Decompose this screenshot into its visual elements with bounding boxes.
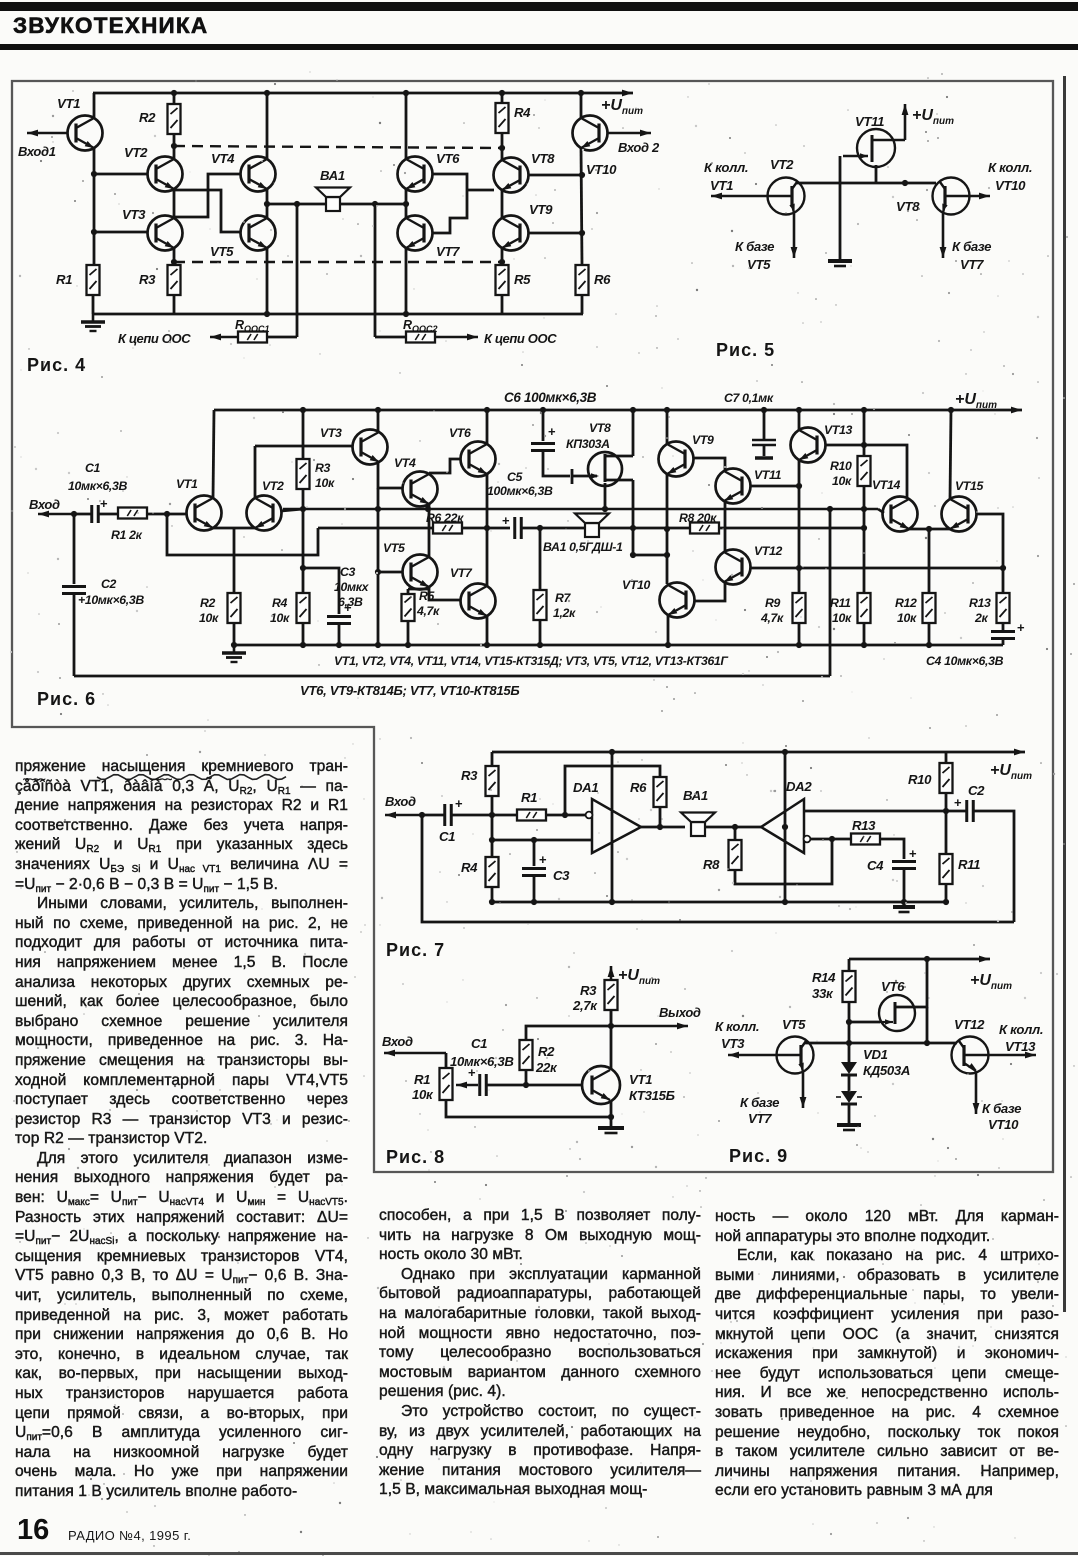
wire R1 to DA1 input bbox=[546, 814, 586, 817]
svg-text:VT6, VT9-КТ814Б; VT7, VT10-К: VT6, VT9-КТ814Б; VT7, VT10-КТ815Б bbox=[300, 683, 519, 698]
node out8 bbox=[608, 1023, 614, 1029]
figure 7: bridge op-amp schematic bbox=[0, 0, 1, 1]
wire R5 to ground rail bbox=[407, 621, 410, 645]
svg-text:+: + bbox=[954, 795, 962, 810]
wire rail to R10 (Fig.7) bbox=[945, 752, 948, 763]
label VT10 bbox=[586, 162, 617, 177]
wire VT9 base to VT10 emitter bbox=[528, 232, 582, 235]
svg-text:R4: R4 bbox=[514, 105, 531, 120]
svg-text:100мк×6,3В: 100мк×6,3В bbox=[487, 484, 553, 498]
label R1 value (Fig.6) bbox=[111, 528, 143, 542]
label VT1 type KT315B bbox=[629, 1088, 675, 1103]
footer journal name bbox=[68, 1528, 191, 1543]
wire bottom return riser bbox=[829, 509, 832, 676]
wire VT5 collector to bias bbox=[428, 509, 431, 557]
wire VT10 emitter to ground rail bbox=[667, 615, 670, 645]
resistor R2 (Fig.6) bbox=[228, 593, 241, 623]
node VT11b-col bbox=[796, 483, 802, 489]
wire VT6 collector to rail bbox=[405, 93, 408, 159]
label C4 value (Fig.6) bbox=[926, 654, 1004, 668]
node R11-gnd bbox=[861, 642, 867, 648]
wire +Upit rail (Fig.4) bbox=[93, 90, 633, 97]
transistor VT10 bbox=[573, 116, 608, 151]
label VT1 (Fig.8) bbox=[629, 1072, 652, 1087]
wire VT2 collector up bbox=[254, 446, 257, 498]
label R13 (Fig.7) bbox=[852, 818, 876, 833]
transistor VT8 bbox=[494, 158, 529, 193]
wire VT2 base bbox=[94, 173, 148, 176]
svg-text:С3: С3 bbox=[340, 565, 356, 579]
wire C5 to speaker bbox=[521, 527, 585, 530]
svg-text:2к: 2к bbox=[974, 611, 988, 625]
node rail-VT13 bbox=[796, 407, 802, 413]
transistor VT7 bbox=[398, 216, 433, 251]
node C4-com bbox=[901, 899, 907, 905]
wire VT8 to bias bbox=[604, 483, 607, 509]
wire C1 to R1 (Fig.7) bbox=[451, 814, 517, 817]
node DA1-com bbox=[609, 899, 615, 905]
wire R13 to C4 (Fig.7) bbox=[880, 839, 904, 859]
node VT13e-VT15b bbox=[796, 565, 802, 571]
resistor R8 (Fig.7) bbox=[734, 827, 737, 840]
label VT7 (Fig.6) bbox=[450, 566, 473, 580]
resistor Roos1 bbox=[238, 332, 267, 343]
transistor VT5 (Fig.9) bbox=[777, 1037, 814, 1074]
wire R1 to bottom rail bbox=[92, 295, 95, 314]
svg-text:R6 22к: R6 22к bbox=[426, 511, 464, 525]
resistor R8 (Fig.6) bbox=[690, 523, 719, 534]
wire VT9 emitter to R5 bbox=[501, 248, 504, 265]
node in7 bbox=[419, 812, 425, 818]
wire lower input line (Fig.7) bbox=[492, 839, 592, 842]
wire VT6 emitter to node B bbox=[405, 189, 408, 204]
wire speaker to DA2 (Fig.7) bbox=[706, 826, 761, 829]
wire R4 to ground rail bbox=[302, 623, 305, 645]
wire R11 to common bbox=[945, 884, 948, 902]
capacitor C3 (Fig.6) bbox=[327, 600, 352, 624]
svg-text:С4: С4 bbox=[867, 858, 884, 873]
label VT3 (Fig.6) bbox=[320, 426, 342, 440]
wire C3 to common bbox=[533, 876, 536, 902]
transistor VT3 (Fig.6) bbox=[353, 430, 388, 465]
node col375-bias bbox=[375, 569, 381, 575]
figure 9: bias chain schematic bbox=[0, 0, 1, 1]
node VT8s-turn bbox=[630, 552, 636, 558]
resistor R1 (Fig.6) bbox=[118, 508, 147, 519]
wire R3 to input line bbox=[491, 796, 494, 815]
svg-text:+Uпит: +Uпит bbox=[601, 97, 643, 117]
wire input arrow (Fig.6) bbox=[38, 511, 74, 518]
wire VT1 emitter column bbox=[93, 148, 96, 265]
svg-text:R13: R13 bbox=[852, 818, 876, 833]
node R3-in bbox=[489, 812, 495, 818]
wire to base VT5 arrow (Fig.5) bbox=[791, 213, 798, 258]
transistor VT6 (Fig.9) bbox=[879, 995, 915, 1031]
wire speaker to R8 bbox=[599, 527, 690, 530]
wire (dashed) bbox=[174, 146, 502, 148]
svg-text:VT2: VT2 bbox=[124, 145, 148, 160]
label R10 value (Fig.6) bbox=[832, 474, 852, 488]
wire C1 to base (Fig.8) bbox=[486, 1084, 582, 1087]
node bias-VT4e bbox=[425, 506, 431, 512]
node out-R7 bbox=[537, 525, 543, 531]
svg-text:R14: R14 bbox=[812, 970, 836, 985]
svg-text:VT10: VT10 bbox=[622, 578, 651, 592]
svg-text:К колл.: К колл. bbox=[988, 160, 1032, 175]
wire emitters to R2 bbox=[233, 528, 236, 593]
label R2 (Fig.6) bbox=[200, 596, 216, 610]
diode VD1 bbox=[841, 1062, 857, 1075]
wire input arrow (Fig.8) bbox=[384, 1050, 446, 1057]
transistor VT9 bbox=[494, 216, 529, 251]
wire DA2 plus input (Fig.7) bbox=[804, 810, 946, 813]
node rail-VT4 bbox=[264, 90, 270, 96]
node R4-gnd bbox=[300, 642, 306, 648]
svg-text:VT3: VT3 bbox=[721, 1036, 745, 1051]
label C2 (Fig.6) bbox=[101, 577, 117, 591]
capacitor C4 (Fig.6) bbox=[991, 620, 1025, 639]
svg-text:R7: R7 bbox=[555, 591, 572, 605]
transistor VT3 bbox=[148, 216, 183, 251]
label R4 bbox=[514, 105, 531, 120]
wire VT1 emitter (Fig.8) bbox=[610, 1101, 613, 1117]
svg-text:К колл.: К колл. bbox=[704, 160, 748, 175]
wire VT7 collector to node B bbox=[405, 204, 408, 218]
node R6-out bbox=[657, 824, 663, 830]
svg-text:10к: 10к bbox=[832, 611, 852, 625]
label C1 (Fig.7) bbox=[439, 829, 455, 844]
label R7 value (Fig.6) bbox=[553, 606, 576, 620]
wire R12 to ground rail bbox=[928, 623, 931, 645]
svg-text:+: + bbox=[455, 796, 463, 811]
label C3 (Fig.6) bbox=[340, 565, 356, 579]
svg-text:VT12: VT12 bbox=[954, 1017, 985, 1032]
transistor VT2 bbox=[148, 157, 183, 192]
wire bias to R4 bbox=[302, 509, 305, 593]
ground (Fig.9) bbox=[837, 1125, 861, 1130]
wire VT6 gate (Fig.9) bbox=[849, 1021, 880, 1024]
transistor VT8 KP303A (Fig.6) bbox=[588, 452, 622, 486]
capacitor C1 (Fig.8) bbox=[468, 1065, 486, 1096]
label R2 value (Fig.8) bbox=[535, 1060, 558, 1075]
node R7-gnd bbox=[537, 642, 543, 648]
wire DA2 inv input to R13 bbox=[810, 838, 851, 841]
label VT6 (Fig.9) bbox=[881, 979, 905, 994]
label VT2 (Fig.5) bbox=[770, 157, 794, 172]
label VT13 ref (Fig.9) bbox=[1005, 1039, 1036, 1054]
svg-text:VT3: VT3 bbox=[122, 207, 146, 222]
label R14 value bbox=[812, 986, 834, 1001]
ground (Fig.5) bbox=[828, 261, 852, 266]
label C1 value (Fig.8) bbox=[450, 1054, 514, 1069]
wire R10 to plus input bbox=[945, 793, 948, 811]
node VT10e-VT8b bbox=[579, 172, 585, 178]
label VT5 (Fig.9) bbox=[782, 1017, 806, 1032]
wire node B2 column to Roos2 bbox=[375, 336, 406, 339]
node R12-gnd bbox=[926, 642, 932, 648]
node rail-mid Fig5 bbox=[902, 180, 908, 186]
svg-text:R3: R3 bbox=[580, 983, 597, 998]
caption Ris. 9 bbox=[729, 1146, 788, 1166]
wire VT8 emitter link bbox=[467, 189, 494, 192]
svg-text:10мк×6,3В: 10мк×6,3В bbox=[68, 479, 127, 493]
label R14 bbox=[812, 970, 836, 985]
label Vyhod (output) bbox=[659, 1005, 701, 1020]
svg-text:RООС1: RООС1 bbox=[235, 318, 270, 334]
wire rail to R2 bbox=[173, 93, 176, 104]
diode VD1 second element bbox=[836, 1091, 862, 1104]
svg-text:R2: R2 bbox=[538, 1044, 555, 1059]
svg-text:VT5: VT5 bbox=[383, 541, 405, 555]
label VT2 (Fig.6) bbox=[262, 479, 284, 493]
wire C6 to VT8 gate bbox=[543, 450, 599, 484]
label R13 value (Fig.6) bbox=[974, 611, 988, 625]
svg-text:VT9: VT9 bbox=[692, 433, 714, 447]
label R8 (Fig.7) bbox=[703, 857, 720, 872]
wire VT6 emitter to output node bbox=[486, 474, 489, 528]
wire input arrow (Fig.7) bbox=[385, 812, 422, 819]
svg-text:VT4: VT4 bbox=[394, 456, 416, 470]
svg-text:С7 0,1мк: С7 0,1мк bbox=[724, 391, 774, 405]
label C5 (Fig.6) bbox=[507, 470, 523, 484]
label VT10 ref (Fig.5) bbox=[995, 178, 1026, 193]
node rail-R3 bbox=[300, 407, 306, 413]
label VT1 bbox=[57, 96, 80, 111]
svg-text:ВА1: ВА1 bbox=[320, 168, 345, 183]
svg-text:К базе: К базе bbox=[982, 1101, 1021, 1116]
label K koll. left (Fig.9) bbox=[715, 1019, 759, 1034]
node R5-gnd bbox=[405, 642, 411, 648]
resistor R6 bbox=[576, 265, 589, 295]
label C2 (Fig.7) bbox=[968, 783, 985, 798]
label R11 value (Fig.6) bbox=[832, 611, 852, 625]
svg-text:VT9: VT9 bbox=[529, 202, 553, 217]
wire C1 to R1 bbox=[98, 513, 118, 516]
caption Ris. 8 bbox=[386, 1147, 445, 1167]
label VT14 (Fig.6) bbox=[872, 478, 901, 492]
label VT2 bbox=[124, 145, 148, 160]
wire R2 to ground rail bbox=[233, 623, 236, 645]
node rail-R4 bbox=[499, 90, 505, 96]
svg-text:С2: С2 bbox=[968, 783, 985, 798]
svg-text:Вход: Вход bbox=[385, 794, 416, 809]
wire to base VT10 arrow (Fig.9) bbox=[973, 1071, 980, 1114]
resistor R11 (Fig.7) bbox=[945, 811, 948, 854]
resistor R11 (Fig.6) bbox=[858, 593, 871, 623]
label VT5 ref (Fig.5) bbox=[747, 257, 771, 272]
wire VT5 emitter to bottom rail bbox=[266, 248, 269, 314]
label K koll. (left Fig.5) bbox=[704, 160, 748, 175]
svg-text:DA1: DA1 bbox=[573, 780, 598, 795]
wire outer return (Fig.7) bbox=[422, 815, 1014, 922]
svg-text:VD1: VD1 bbox=[863, 1047, 888, 1062]
wire VT13 emitter column bbox=[798, 460, 801, 593]
label R12 (Fig.6) bbox=[895, 596, 917, 610]
capacitor C2 (Fig.7) bbox=[946, 795, 973, 822]
label R6 bbox=[594, 272, 611, 287]
svg-text:С6 100мк×6,3В: С6 100мк×6,3В bbox=[504, 390, 597, 405]
resistor R13 (Fig.6) bbox=[1002, 568, 1005, 593]
svg-text:VT15: VT15 bbox=[955, 479, 984, 493]
node R4-com bbox=[489, 899, 495, 905]
svg-text:10к: 10к bbox=[832, 474, 852, 488]
transistor VT1 (Fig.6) bbox=[187, 496, 222, 531]
transistor VT4 bbox=[241, 157, 276, 192]
wire R8 to R11 column bbox=[719, 527, 864, 530]
wire input 2 arrow bbox=[608, 130, 651, 137]
svg-text:R3: R3 bbox=[139, 272, 156, 287]
wire R7 to ground rail bbox=[539, 620, 542, 645]
wire diode to ground (Fig.9) bbox=[848, 1104, 851, 1123]
capacitor C1 (Fig.7) bbox=[422, 796, 463, 826]
wire VT7 emitter to ground rail bbox=[486, 616, 489, 645]
label R10 (Fig.7) bbox=[908, 772, 932, 787]
svg-text:+: + bbox=[100, 496, 108, 511]
transistor VT8 (Fig.5) bbox=[933, 178, 970, 215]
wire mid line VT5 to VT12 bbox=[804, 1042, 957, 1045]
capacitor C2 (Fig.6) bbox=[62, 587, 86, 594]
label transistor types line 1 bbox=[334, 654, 728, 668]
node rail-R10 bbox=[861, 407, 867, 413]
svg-text:R8 20к: R8 20к bbox=[679, 511, 717, 525]
label VT5 (Fig.6) bbox=[383, 541, 405, 555]
node VT9e-dash bbox=[499, 259, 505, 265]
wire ground rail (Fig.6) bbox=[234, 644, 1003, 647]
resistor Roos2 bbox=[406, 332, 435, 343]
svg-text:R11: R11 bbox=[958, 857, 980, 872]
svg-text:VT5: VT5 bbox=[747, 257, 771, 272]
wire output bridge (speaker) line bbox=[267, 203, 406, 206]
svg-text:R12: R12 bbox=[895, 596, 917, 610]
loudspeaker BA1 (Fig.4) bbox=[316, 188, 350, 212]
wire rail to R4 bbox=[501, 93, 504, 103]
resistor R3 (Fig.8) bbox=[605, 980, 618, 1010]
node R14-VT6g bbox=[846, 1019, 852, 1025]
svg-text:4,7к: 4,7к bbox=[760, 611, 784, 625]
svg-text:К цепи ООС: К цепи ООС bbox=[118, 331, 191, 346]
wire collector VT3 arrow (Fig.9) bbox=[728, 1052, 777, 1059]
wire R4 to common (Fig.7) bbox=[491, 887, 494, 902]
wire +Upit rail (Fig.7) bbox=[492, 749, 1025, 756]
label R10 (Fig.6) bbox=[830, 459, 852, 473]
wire +Upit rail (Fig.6) bbox=[214, 407, 1022, 414]
svg-text:Рис. 7: Рис. 7 bbox=[386, 940, 445, 960]
transistor VT5 (Fig.6) bbox=[403, 555, 438, 590]
capacitor C6 (Fig.6) bbox=[531, 424, 556, 451]
node C3-top bbox=[531, 837, 537, 843]
label VT15 (Fig.6) bbox=[955, 479, 984, 493]
resistor R10 (Fig.7) bbox=[940, 763, 953, 793]
header top rule bbox=[0, 2, 1078, 11]
svg-text:Вход: Вход bbox=[382, 1034, 413, 1049]
page edge line right bbox=[1063, 76, 1066, 1312]
node rail-C6 bbox=[540, 407, 546, 413]
wire DA1 output (Fig.7) bbox=[641, 826, 685, 829]
label C3 value b (Fig.6) bbox=[338, 595, 363, 609]
svg-text:10к: 10к bbox=[270, 611, 290, 625]
svg-text:10к: 10к bbox=[199, 611, 219, 625]
node rail-VT6 bbox=[403, 90, 409, 96]
svg-text:К колл.: К колл. bbox=[999, 1022, 1043, 1037]
node A bbox=[264, 201, 270, 207]
transistor VT1 bbox=[68, 116, 103, 151]
transistor VT13 (Fig.6) bbox=[791, 428, 826, 463]
svg-text:Выход: Выход bbox=[659, 1005, 701, 1020]
transistor VT7 (Fig.6) bbox=[461, 584, 496, 619]
transistor VT9 (Fig.6) bbox=[659, 442, 694, 477]
svg-text:+10мк×6,3В: +10мк×6,3В bbox=[78, 593, 144, 607]
label VT5 bbox=[210, 244, 234, 259]
svg-text:2,7к: 2,7к bbox=[572, 998, 598, 1013]
label K tsepi OOS (left) bbox=[118, 331, 191, 346]
label VT9 (Fig.6) bbox=[692, 433, 714, 447]
label C5 value (Fig.6) bbox=[487, 484, 553, 498]
label R3 value (Fig.8) bbox=[572, 998, 598, 1013]
wire Roos1 to node A2 column bbox=[267, 336, 297, 339]
label R7 (Fig.6) bbox=[555, 591, 572, 605]
wire to base VT7 arrow (Fig.5) bbox=[940, 213, 947, 258]
wire VT4 emitter to output node A bbox=[266, 189, 269, 204]
wire feedback to R6 (Fig.7) bbox=[565, 766, 660, 815]
wire VT14 emitter to R12 bbox=[909, 528, 929, 531]
label Vhod (Fig.6) bbox=[29, 497, 60, 512]
label Vhod 2 (input 2) bbox=[618, 140, 660, 155]
wire +Upit arrow (Fig.5) bbox=[902, 104, 909, 140]
svg-text:R2: R2 bbox=[200, 596, 216, 610]
label R13 (Fig.6) bbox=[969, 596, 991, 610]
wire VT4 emitter to bias bbox=[428, 504, 431, 509]
wire R2 to base (Fig.8) bbox=[525, 1070, 528, 1085]
wire (dashed) bbox=[174, 261, 502, 263]
wire VT2 base to bias line bbox=[281, 509, 303, 511]
wire VT15 collector to rail bbox=[950, 410, 951, 499]
wire R8 to R13 node bbox=[735, 839, 832, 884]
label VT3 bbox=[122, 207, 146, 222]
svg-text:+: + bbox=[548, 424, 556, 439]
label K baze left (Fig.9) bbox=[740, 1095, 779, 1110]
wire C4 to ground (Fig.7) bbox=[903, 869, 906, 905]
right text column bbox=[715, 1207, 1059, 1501]
svg-text:+Uпит: +Uпит bbox=[618, 967, 660, 987]
wire VT6 to mid line (Fig.9) bbox=[926, 1007, 929, 1043]
wire rail to C6 bbox=[542, 410, 545, 441]
node in-C2 bbox=[71, 511, 77, 517]
svg-text:Рис. 6: Рис. 6 bbox=[37, 689, 96, 709]
figure 4: bridge power amplifier schematic bbox=[0, 0, 1, 1]
figure 8: single transistor amplifier bbox=[0, 0, 1, 1]
svg-text:R6: R6 bbox=[594, 272, 611, 287]
wire output node to R7 bbox=[539, 528, 542, 590]
svg-text:R9: R9 bbox=[765, 596, 781, 610]
wire R4 to VT8 collector bbox=[501, 133, 504, 160]
label VT1 ref (Fig.5) bbox=[710, 178, 733, 193]
label C1 (Fig.6) bbox=[85, 461, 101, 475]
wire C2 branch bbox=[73, 514, 76, 584]
wire VT2 emitter to VT3 collector bbox=[173, 189, 176, 218]
wire VT5 base bbox=[378, 571, 402, 574]
svg-text:4,7к: 4,7к bbox=[416, 604, 440, 618]
wire VT13 base to VT14 collector bbox=[825, 445, 907, 498]
svg-text:+: + bbox=[909, 846, 917, 861]
node rail-DA2 bbox=[782, 749, 788, 755]
node VT9e-out bbox=[664, 526, 670, 532]
caption Ris. 6 bbox=[37, 689, 96, 709]
node VT10e-VT9b bbox=[579, 230, 585, 236]
wire common line (Fig.7) bbox=[492, 901, 946, 904]
wire mid rail (Fig.5) bbox=[797, 182, 936, 185]
node fb-in bbox=[164, 511, 170, 517]
svg-text:ВА1: ВА1 bbox=[683, 788, 708, 803]
